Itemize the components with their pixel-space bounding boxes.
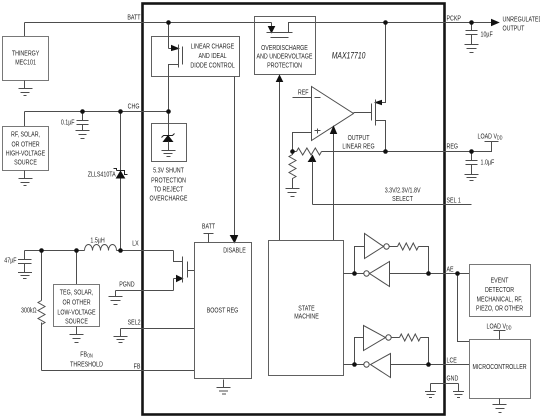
arrow enable up into overdischarge xyxy=(277,76,283,82)
svg-text:MICROCONTROLLER: MICROCONTROLLER xyxy=(472,363,526,371)
ground under boost box xyxy=(217,380,231,395)
microcontroller box xyxy=(470,340,531,399)
resistor LCE feedback xyxy=(400,334,421,341)
svg-text:AND IDEAL: AND IDEAL xyxy=(199,53,228,61)
wire SEL1 net xyxy=(313,204,472,206)
svg-text:PGND: PGND xyxy=(119,281,135,289)
svg-text:REG: REG xyxy=(447,143,459,151)
wire CHG to source box xyxy=(24,112,26,127)
svg-text:UNREGULATED: UNREGULATED xyxy=(503,16,540,24)
resistor AE feedback xyxy=(398,243,419,250)
transistor overdischarge FET xyxy=(267,33,293,38)
arrow select into resistor xyxy=(309,156,316,162)
ground under microcontroller xyxy=(493,399,507,413)
svg-text:LINEAR REG: LINEAR REG xyxy=(342,143,374,151)
terminal LOAD VDD bar micro xyxy=(494,331,506,340)
svg-text:5.3V SHUNT: 5.3V SHUNT xyxy=(153,167,184,175)
svg-text:47µF: 47µF xyxy=(4,257,16,265)
node CHG shunt junction xyxy=(166,109,171,114)
wire LX net xyxy=(25,251,183,262)
svg-text:OVERDISCHARGE: OVERDISCHARGE xyxy=(261,44,308,52)
wire LCE net from state machine xyxy=(344,364,444,366)
node PCKP cap junction xyxy=(469,20,474,25)
inductor 1.5uH xyxy=(85,245,117,251)
svg-text:SELECT: SELECT xyxy=(392,195,413,203)
ground under 47uF xyxy=(18,273,32,279)
ground at SEL2 xyxy=(114,329,128,343)
linear charge box xyxy=(152,37,240,77)
wire overdischarge FET to PCKP xyxy=(289,23,316,33)
terminal BATT bar boost xyxy=(204,234,214,243)
svg-text:MACHINE: MACHINE xyxy=(294,313,319,321)
arrow into linear-charge FET xyxy=(172,46,179,51)
svg-text:MAX17710: MAX17710 xyxy=(332,51,366,61)
wire AE external xyxy=(444,273,470,275)
IC boundary MAX17710 xyxy=(143,4,445,415)
svg-text:LX: LX xyxy=(132,240,139,248)
wire FB net xyxy=(42,370,195,372)
wire TEG branch xyxy=(76,251,78,285)
capacitor 10uF xyxy=(466,23,478,45)
ground under 0.1uF xyxy=(76,131,90,139)
node BATT-linear junction xyxy=(166,20,171,25)
node LX diode junction xyxy=(118,248,123,253)
wire CHG net xyxy=(25,111,169,113)
svg-text:PCKP: PCKP xyxy=(447,15,461,23)
svg-text:DIODE CONTROL: DIODE CONTROL xyxy=(190,62,235,70)
node CHG cap junction xyxy=(80,109,85,114)
ground under RF source box xyxy=(19,171,33,186)
wire linear-charge FET source to CHG node xyxy=(169,65,179,112)
op-amp U1 output linear reg xyxy=(312,87,354,141)
wire select to SEL1 xyxy=(312,162,314,205)
wire REG net xyxy=(293,151,492,153)
svg-text:RF, SOLAR,: RF, SOLAR, xyxy=(11,131,40,139)
node AE right junction xyxy=(426,271,431,276)
op-amp minus sign xyxy=(315,97,321,99)
wire output FET source to REG xyxy=(376,121,386,152)
ground under THINERGY xyxy=(19,81,33,96)
node REG cap junction xyxy=(469,149,474,154)
svg-text:OVERCHARGE: OVERCHARGE xyxy=(150,195,188,203)
arrow select into op-amp xyxy=(331,127,337,134)
arrow unregulated output xyxy=(492,20,499,26)
svg-text:SOURCE: SOURCE xyxy=(65,318,88,326)
arrow into boost FET source xyxy=(177,276,183,282)
svg-text:300kΩ: 300kΩ xyxy=(21,307,37,315)
svg-text:CHG: CHG xyxy=(128,103,140,111)
wire BATT net top xyxy=(25,22,492,24)
transistor output FET xyxy=(372,100,376,126)
svg-text:GND: GND xyxy=(447,375,459,383)
ground GND internal xyxy=(425,384,436,398)
svg-text:OUTPUT: OUTPUT xyxy=(503,25,525,33)
wire op-amp output to FET gate xyxy=(354,112,372,114)
arrow into overdischarge FET xyxy=(269,27,275,33)
node LCE right junction xyxy=(426,362,431,367)
ground at PGND xyxy=(109,291,123,305)
inverter LCE reverse (left-facing) xyxy=(371,354,391,378)
svg-text:DISABLE: DISABLE xyxy=(223,247,245,255)
svg-text:LOW-VOLTAGE: LOW-VOLTAGE xyxy=(57,309,95,317)
node LX 300k junction xyxy=(39,248,44,253)
wire inverter to resistor AE xyxy=(390,246,398,248)
svg-text:3.3V/2.3V/1.8V: 3.3V/2.3V/1.8V xyxy=(385,187,421,195)
wire AE to forward inverter xyxy=(355,247,365,274)
wire REF to op-amp minus input xyxy=(293,97,312,99)
svg-text:TO REJECT: TO REJECT xyxy=(154,186,184,194)
svg-text:SEL2: SEL2 xyxy=(128,319,141,327)
terminal LOAD VDD bar xyxy=(485,141,499,143)
zener triangle xyxy=(164,136,173,142)
wire REG to load xyxy=(472,142,492,152)
ground under TEG box xyxy=(70,327,84,343)
node CHG diode junction xyxy=(118,109,123,114)
arrow into output FET drain xyxy=(376,101,382,105)
arrow DISABLE down xyxy=(231,236,238,243)
inverter AE forward xyxy=(365,234,384,259)
node AE external junction xyxy=(455,271,460,276)
node PCKP drop junction xyxy=(383,20,388,25)
svg-text:REF: REF xyxy=(298,89,309,97)
svg-text:ZLLS410TA: ZLLS410TA xyxy=(88,171,117,179)
overdischarge box xyxy=(255,17,316,75)
svg-text:MECHANICAL, RF,: MECHANICAL, RF, xyxy=(477,296,523,304)
svg-text:BATT: BATT xyxy=(202,223,215,231)
wire 300k branch xyxy=(41,251,43,371)
svg-text:1.0µF: 1.0µF xyxy=(481,159,495,167)
svg-text:AE: AE xyxy=(447,266,454,274)
wire CHG node to shunt box xyxy=(168,112,170,123)
wire LCE external xyxy=(444,364,470,366)
svg-text:OR OTHER: OR OTHER xyxy=(12,141,40,149)
wire boost FET gate xyxy=(188,270,195,272)
svg-text:LCE: LCE xyxy=(447,357,457,365)
diode D1 ZLLS410TA wire xyxy=(120,112,122,251)
wire AE to microcontroller xyxy=(458,274,470,342)
capacitor 47uF xyxy=(18,251,32,273)
wire PCKP drop to output FET drain xyxy=(382,23,386,103)
wire PGND net xyxy=(116,279,177,291)
wire BATT node to linear-charge FET drain xyxy=(169,23,172,49)
svg-text:BATT: BATT xyxy=(127,14,140,22)
diode D1 ZLLS410TA schottky symbol xyxy=(114,169,128,175)
wire state machine to overdischarge enable xyxy=(279,82,281,241)
svg-text:THINERGY: THINERGY xyxy=(12,50,40,58)
svg-text:LOAD VDD: LOAD VDD xyxy=(478,133,504,141)
svg-text:OR OTHER: OR OTHER xyxy=(63,299,91,307)
resistor 300k xyxy=(38,301,45,325)
wire AE net from state machine xyxy=(344,273,444,275)
svg-text:HIGH-VOLTAGE: HIGH-VOLTAGE xyxy=(6,150,45,158)
svg-text:PIEZO, OR OTHER: PIEZO, OR OTHER xyxy=(476,305,523,313)
svg-text:OUTPUT: OUTPUT xyxy=(348,134,370,142)
capacitor 0.1uF xyxy=(77,112,89,131)
node dots xyxy=(39,20,474,367)
svg-text:PROTECTION: PROTECTION xyxy=(151,177,186,185)
ground under divider xyxy=(286,189,300,197)
svg-text:FBON: FBON xyxy=(80,351,92,359)
wire SEL2 net xyxy=(121,328,195,330)
state machine box xyxy=(269,241,344,376)
source box RF solar high-voltage xyxy=(3,127,49,171)
node LCE left junction xyxy=(352,362,357,367)
svg-text:BOOST REG: BOOST REG xyxy=(207,307,239,315)
inverter LCE forward xyxy=(364,326,386,351)
svg-text:THRESHOLD: THRESHOLD xyxy=(70,361,103,369)
svg-text:1.5µH: 1.5µH xyxy=(90,237,105,245)
wire BATT to battery box xyxy=(24,23,26,37)
svg-text:SEL 1: SEL 1 xyxy=(447,197,462,205)
resistor divider top (variable) xyxy=(297,148,322,155)
wire linear charge to boost DISABLE xyxy=(234,77,236,236)
wire select enable to op-amp xyxy=(333,134,335,241)
zener diode 5.3V shunt wire xyxy=(168,123,170,136)
svg-text:FB: FB xyxy=(134,363,141,371)
svg-text:EVENT: EVENT xyxy=(491,277,509,285)
wire BATT into overdischarge FET xyxy=(255,23,272,27)
transistor boost FET xyxy=(183,257,188,283)
svg-text:STATE: STATE xyxy=(298,305,314,313)
inverter AE reverse (left-facing) xyxy=(370,262,390,287)
ground under 10uF xyxy=(465,45,479,53)
svg-text:0.1µF: 0.1µF xyxy=(61,119,75,127)
wire op-amp plus input xyxy=(293,133,312,152)
svg-text:10µF: 10µF xyxy=(481,31,493,39)
boost reg box xyxy=(195,243,252,379)
wire resistor AE to node xyxy=(419,247,429,274)
capacitor 1.0uF xyxy=(466,152,478,175)
ground in shunt box xyxy=(162,142,176,157)
svg-text:MEC101: MEC101 xyxy=(15,59,36,67)
node REG divider junction xyxy=(290,149,295,154)
svg-text:LINEAR CHARGE: LINEAR CHARGE xyxy=(191,43,234,51)
source box TEG low-voltage xyxy=(54,285,100,327)
event detector box xyxy=(470,265,531,317)
svg-text:DETECTOR: DETECTOR xyxy=(485,286,515,294)
wire inverter to resistor LCE xyxy=(392,337,400,339)
zener cathode bar with hooks xyxy=(162,134,175,138)
node AE left junction xyxy=(352,271,357,276)
resistor divider bottom xyxy=(289,152,296,189)
shunt protection box xyxy=(152,124,187,162)
svg-text:AND UNDERVOLTAGE: AND UNDERVOLTAGE xyxy=(257,53,313,61)
node LX TEG junction xyxy=(74,248,79,253)
svg-text:PROTECTION: PROTECTION xyxy=(267,62,302,70)
ground GND external xyxy=(453,384,464,398)
node REG FET junction xyxy=(383,149,388,154)
battery box THINERGY MEC101 xyxy=(3,37,49,81)
ground under 1.0uF xyxy=(465,175,479,181)
wire resistor LCE to node xyxy=(421,338,429,365)
op-amp plus sign xyxy=(315,129,321,134)
wire LCE to forward inverter xyxy=(355,338,364,365)
svg-text:SOURCE: SOURCE xyxy=(14,159,37,167)
wire GND pin xyxy=(431,383,459,385)
svg-text:LOAD VDD: LOAD VDD xyxy=(487,323,513,331)
svg-text:TEG, SOLAR,: TEG, SOLAR, xyxy=(60,289,94,297)
transistor linear-charge pass FET xyxy=(179,45,183,68)
